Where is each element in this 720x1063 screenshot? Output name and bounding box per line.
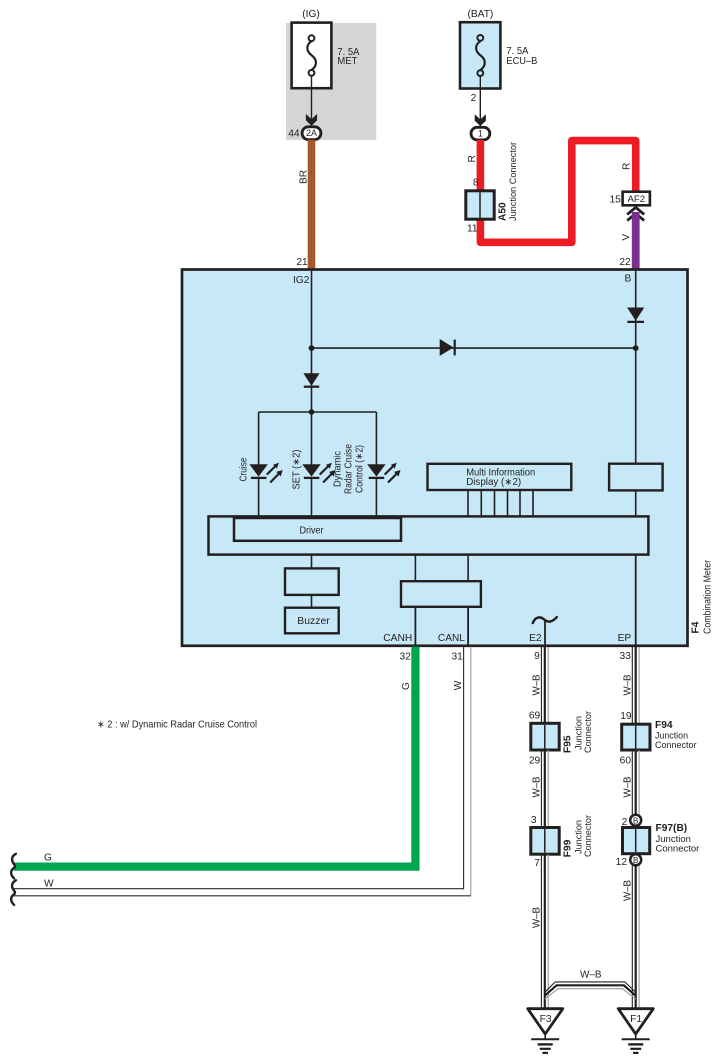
svg-text:CANL: CANL xyxy=(438,633,465,644)
wires driver to CAN block xyxy=(415,555,468,582)
svg-text:2A: 2A xyxy=(306,128,317,138)
junction connector F97(B) xyxy=(623,828,650,854)
wire LED branch 1 xyxy=(258,412,260,518)
label W-B right 1 xyxy=(623,674,634,695)
shield chevrons below AF2 xyxy=(627,207,644,220)
svg-text:32: 32 xyxy=(400,652,412,663)
LED Cruise indicator xyxy=(249,463,282,483)
diode D3 on IG2 line (points down) xyxy=(303,373,319,386)
label (IG) xyxy=(302,9,320,20)
wire W-B ground jumper xyxy=(545,982,636,999)
svg-text:69: 69 xyxy=(529,711,541,722)
CAN block xyxy=(401,581,481,607)
Multi Information Display box xyxy=(428,464,572,490)
svg-text:Combination Meter: Combination Meter xyxy=(703,559,714,634)
svg-text:W–B: W–B xyxy=(532,776,543,797)
wire BR (brown) pin 2A to pin 21 xyxy=(308,140,316,269)
label B xyxy=(625,274,632,285)
svg-text:W–B: W–B xyxy=(623,776,634,797)
pin 3 xyxy=(531,815,537,826)
svg-text:22: 22 xyxy=(619,257,631,268)
svg-text:2: 2 xyxy=(471,93,477,104)
diode D2 on B line (points down) xyxy=(627,308,644,322)
svg-text:B: B xyxy=(625,274,632,285)
node B ring lower xyxy=(630,854,641,865)
svg-text:33: 33 xyxy=(620,651,632,662)
ground F3 xyxy=(528,1009,563,1053)
pin 1 xyxy=(471,127,490,140)
svg-text:G: G xyxy=(401,682,412,690)
label W horizontal xyxy=(44,878,54,889)
pin 33 xyxy=(620,651,632,662)
wire W-B E2 segment 1 xyxy=(541,647,548,723)
svg-text:MET: MET xyxy=(337,56,357,67)
connector AF2 xyxy=(623,192,650,206)
wire IG2 internal xyxy=(311,271,313,412)
label W-B jumper xyxy=(580,970,602,981)
combination meter box F4 xyxy=(182,270,688,646)
junction connector F95 xyxy=(531,723,559,750)
svg-text:7: 7 xyxy=(534,858,540,869)
IG fuse block shading xyxy=(286,23,376,140)
wire fuse ECU-B to pin 1 xyxy=(475,76,486,127)
svg-text:Radar Cruise: Radar Cruise xyxy=(344,444,355,494)
label BR xyxy=(298,170,309,184)
pin 8 xyxy=(473,178,479,189)
svg-text:(IG): (IG) xyxy=(302,9,320,20)
label IG2 xyxy=(293,275,310,286)
svg-text:8: 8 xyxy=(473,178,479,189)
pin 22 xyxy=(619,257,631,268)
svg-text:F99: F99 xyxy=(563,839,574,857)
svg-text:B: B xyxy=(633,816,639,826)
pin 69 xyxy=(529,711,541,722)
wire EP internal xyxy=(635,555,637,645)
pin 9 xyxy=(534,651,540,662)
svg-text:R: R xyxy=(621,163,632,170)
svg-text:11: 11 xyxy=(467,223,478,234)
pin 2 F97 xyxy=(622,817,628,828)
svg-text:BR: BR xyxy=(298,170,309,184)
svg-text:19: 19 xyxy=(620,711,632,722)
junction connector F94 xyxy=(622,724,650,750)
svg-text:F97(B): F97(B) xyxy=(656,823,688,834)
label W-B left 1 xyxy=(532,674,543,695)
label G horizontal xyxy=(44,853,52,864)
svg-text:1: 1 xyxy=(478,129,483,139)
label Cruise xyxy=(239,457,250,481)
wire LED branch 3 xyxy=(375,412,377,518)
svg-text:12: 12 xyxy=(616,857,628,868)
label F4 xyxy=(691,621,702,633)
svg-text:∗ 2 : w/ Dynamic Radar Cruise: ∗ 2 : w/ Dynamic Radar Cruise Control xyxy=(97,719,257,730)
svg-text:IG2: IG2 xyxy=(293,275,310,286)
label (BAT) xyxy=(467,9,493,20)
wire cross bus IG2 to B xyxy=(312,347,636,349)
svg-text:W–B: W–B xyxy=(580,970,602,981)
svg-text:15: 15 xyxy=(609,195,621,206)
svg-text:F95: F95 xyxy=(563,735,574,753)
svg-text:21: 21 xyxy=(296,257,308,268)
svg-text:Driver: Driver xyxy=(300,525,325,536)
svg-text:R: R xyxy=(467,155,478,162)
svg-text:F1: F1 xyxy=(630,1014,642,1025)
svg-text:Connector: Connector xyxy=(583,711,594,753)
pre-buzzer block xyxy=(285,568,339,595)
pin 31 xyxy=(451,652,463,663)
label CANH xyxy=(383,633,412,644)
svg-text:W–B: W–B xyxy=(532,674,543,695)
fuse 7.5A MET xyxy=(292,23,360,89)
wire G (green) CANH xyxy=(14,647,416,867)
svg-text:44: 44 xyxy=(288,129,300,140)
svg-text:W: W xyxy=(44,878,54,889)
pin 21 xyxy=(296,257,308,268)
fuse 7.5A ECU-B xyxy=(460,22,538,88)
node B ring upper xyxy=(630,815,641,826)
label F95 Junction Connector xyxy=(563,711,595,753)
node junction B/bus xyxy=(633,345,639,351)
svg-text:EP: EP xyxy=(618,633,632,644)
label W vertical xyxy=(453,680,464,690)
svg-text:60: 60 xyxy=(620,755,632,766)
label CANL xyxy=(438,633,465,644)
wire LED bus xyxy=(259,411,377,413)
right internal block (B branch) xyxy=(609,464,663,491)
svg-text:A50: A50 xyxy=(498,202,509,221)
wire to buzzer xyxy=(311,595,313,608)
svg-text:W–B: W–B xyxy=(623,674,634,695)
continuation brace W xyxy=(11,880,16,905)
driver outer block xyxy=(209,516,649,554)
label W-B right 3 xyxy=(623,880,634,901)
label V xyxy=(621,234,632,241)
svg-text:F3: F3 xyxy=(540,1014,552,1025)
pin 44 2A xyxy=(288,127,321,140)
pin 12 xyxy=(616,857,628,868)
svg-text:Connector: Connector xyxy=(583,815,594,857)
svg-text:F94: F94 xyxy=(655,720,673,731)
label W-B left 2 xyxy=(532,776,543,797)
pin 15 xyxy=(609,195,621,206)
comb wires MID to driver block xyxy=(468,490,533,516)
buzzer block xyxy=(285,608,339,634)
label SET (*2) xyxy=(292,450,303,490)
wire B block to driver block xyxy=(635,490,637,516)
label R right run xyxy=(621,163,632,170)
label R left run xyxy=(467,155,478,162)
pin 19 xyxy=(620,711,632,722)
wire R (red) pin 1 to AF2 xyxy=(480,140,635,242)
wire W-B E2 segment 3 xyxy=(541,854,548,1009)
svg-text:G: G xyxy=(44,853,52,864)
continuation brace G xyxy=(11,854,16,879)
wire W-B E2 segment 2 xyxy=(541,750,548,828)
svg-text:Cruise: Cruise xyxy=(239,457,250,481)
wire W (white) CANL xyxy=(14,647,471,897)
svg-text:F4: F4 xyxy=(691,621,702,633)
wire CANH internal xyxy=(414,607,416,645)
svg-text:Connector: Connector xyxy=(655,740,697,751)
label A50 Junction Connector xyxy=(498,142,520,221)
node junction LED bus xyxy=(309,409,315,415)
pin 7 xyxy=(534,858,540,869)
label E2 xyxy=(529,633,542,644)
junction connector A50 xyxy=(466,191,494,219)
label G vertical xyxy=(401,682,412,690)
pin 29 xyxy=(529,755,541,766)
svg-text:31: 31 xyxy=(451,652,463,663)
label F94 Junction Connector xyxy=(655,720,697,751)
svg-text:Buzzer: Buzzer xyxy=(297,616,330,627)
pin 32 xyxy=(400,652,412,663)
wire CANL internal xyxy=(467,607,469,645)
svg-text:B: B xyxy=(633,855,639,865)
wire driver to pre-buzzer box xyxy=(311,555,313,569)
wire fuse MET to pin 2A xyxy=(306,76,317,127)
svg-text:Control (∗2): Control (∗2) xyxy=(355,445,366,493)
label W-B right 2 xyxy=(623,776,634,797)
LED Dynamic Radar Cruise Control indicator xyxy=(367,463,400,483)
svg-text:3: 3 xyxy=(531,815,537,826)
svg-text:Display (∗2): Display (∗2) xyxy=(466,477,521,488)
driver inner block xyxy=(234,518,401,541)
svg-text:W–B: W–B xyxy=(532,907,543,928)
junction connector F99 xyxy=(531,828,559,855)
label EP xyxy=(618,633,632,644)
pin 11 xyxy=(467,223,478,234)
svg-text:9: 9 xyxy=(534,651,540,662)
svg-text:Junction Connector: Junction Connector xyxy=(508,142,519,221)
wire V (violet) AF2 to pin 22 xyxy=(632,212,640,269)
svg-text:29: 29 xyxy=(529,755,541,766)
label Dynamic Radar Cruise Control (*2) xyxy=(333,444,366,494)
svg-text:ECU–B: ECU–B xyxy=(506,56,537,67)
svg-text:Dynamic: Dynamic xyxy=(333,451,344,487)
svg-text:(BAT): (BAT) xyxy=(467,9,493,20)
label F97(B) Junction Connector xyxy=(656,823,700,855)
label Combination Meter xyxy=(703,559,714,634)
svg-text:W–B: W–B xyxy=(623,880,634,901)
note *2 w/ Dynamic Radar Cruise Control xyxy=(97,719,257,730)
diode D1 on bus (points right) xyxy=(440,339,455,356)
label W-B left 3 xyxy=(532,907,543,928)
pin 2 xyxy=(471,93,477,104)
shield symbol at E2 xyxy=(533,617,557,645)
svg-text:E2: E2 xyxy=(529,633,542,644)
pin 60 xyxy=(620,755,632,766)
svg-text:W: W xyxy=(453,680,464,690)
svg-text:SET (∗2): SET (∗2) xyxy=(292,450,303,490)
svg-text:CANH: CANH xyxy=(383,633,412,644)
wire W-B EP segment 1 xyxy=(632,647,639,724)
wire B internal xyxy=(635,271,637,464)
svg-text:V: V xyxy=(621,234,632,241)
wire W-B EP segment 2 xyxy=(632,750,639,1009)
node junction IG2/bus xyxy=(309,345,315,351)
svg-text:AF2: AF2 xyxy=(627,194,645,205)
ground F1 xyxy=(618,1009,653,1053)
svg-text:Connector: Connector xyxy=(656,843,700,854)
LED SET indicator xyxy=(302,463,335,483)
label F99 Junction Connector xyxy=(563,815,595,857)
wire LED branch 2 xyxy=(311,412,313,518)
